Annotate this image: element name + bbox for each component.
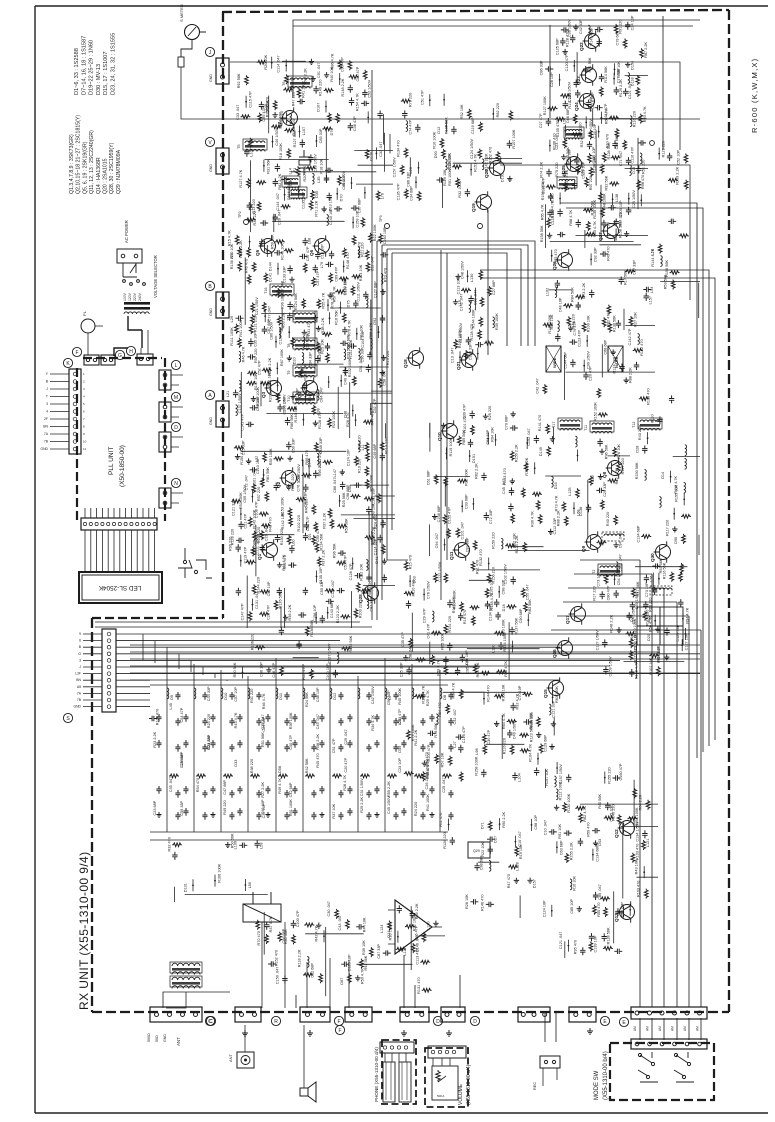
svg-text:Q6: Q6: [309, 249, 314, 256]
svg-text:R68 4.7K: R68 4.7K: [569, 210, 573, 226]
circled E2: [619, 1017, 628, 1026]
svg-text:AM: AM: [671, 1026, 675, 1031]
svg-text:AM: AM: [683, 1026, 687, 1031]
AC POWER block: [117, 249, 142, 263]
relay RL1: [243, 904, 281, 922]
svg-text:C100 10P: C100 10P: [326, 663, 330, 680]
svg-text:R10 100K: R10 100K: [432, 131, 436, 148]
svg-text:C20 47P: C20 47P: [589, 366, 593, 381]
svg-text:C110 47P: C110 47P: [631, 147, 635, 164]
svg-text:C40 1/50V: C40 1/50V: [344, 366, 348, 384]
svg-text:C121 33P: C121 33P: [552, 700, 556, 717]
svg-text:R155 10K: R155 10K: [675, 484, 679, 501]
svg-text:R62 4.7K: R62 4.7K: [583, 805, 587, 821]
switch S1-2: [674, 1052, 694, 1082]
svg-text:R123 2.2K: R123 2.2K: [515, 535, 519, 553]
svg-text:L77: L77: [255, 456, 259, 462]
svg-text:C143 47P: C143 47P: [240, 413, 244, 430]
svg-text:Q8: Q8: [602, 471, 607, 478]
svg-text:C29 .047: C29 .047: [344, 729, 348, 744]
regulator area subcircuit: resistors, capacitors and wiring: [439, 811, 538, 918]
transistor Q1: [263, 543, 278, 558]
svg-text:R46 220: R46 220: [304, 499, 308, 513]
svg-text:L76: L76: [381, 193, 385, 199]
svg-text:R82 470: R82 470: [607, 313, 611, 327]
svg-text:C80 47P: C80 47P: [356, 66, 360, 81]
svg-text:C85 .047: C85 .047: [598, 884, 602, 899]
svg-text:R29 4.7K: R29 4.7K: [426, 690, 430, 706]
svg-text:R110 470: R110 470: [411, 580, 415, 596]
svg-text:C50 33P: C50 33P: [291, 438, 295, 453]
svg-text:D9: D9: [169, 694, 174, 700]
svg-text:R31 56K: R31 56K: [266, 158, 270, 173]
svg-text:C34 68P: C34 68P: [410, 186, 414, 201]
svg-text:BN: BN: [76, 678, 81, 682]
svg-text:R131 470: R131 470: [417, 977, 421, 993]
svg-text:PLL UNIT: PLL UNIT: [108, 447, 115, 475]
svg-text:C157 1/50V: C157 1/50V: [393, 157, 397, 178]
svg-text:C134 68P: C134 68P: [637, 525, 641, 542]
svg-text:R43 10K: R43 10K: [635, 859, 639, 874]
transformer T9: [295, 367, 315, 369]
svg-text:120V: 120V: [128, 292, 132, 301]
svg-text:R28 4.7K: R28 4.7K: [343, 775, 347, 791]
svg-text:D11: D11: [278, 692, 283, 700]
svg-text:C38 10P: C38 10P: [316, 687, 320, 702]
svg-text:R73 4.7K: R73 4.7K: [554, 495, 558, 511]
svg-text:C46 47P: C46 47P: [272, 662, 276, 677]
svg-text:C49 68P: C49 68P: [373, 443, 377, 458]
wire right loop 1: [560, 203, 697, 758]
svg-text:C158 10P: C158 10P: [313, 604, 317, 621]
svg-text:R94 10K: R94 10K: [491, 427, 495, 442]
connector J at x441: [441, 1007, 465, 1022]
svg-text:R82 2.2K: R82 2.2K: [278, 173, 282, 189]
svg-text:L80: L80: [250, 204, 254, 210]
svg-text:C63 33P: C63 33P: [486, 429, 490, 444]
svg-text:C45 1/50V: C45 1/50V: [387, 796, 391, 814]
wire AC to J3: [141, 330, 148, 354]
svg-text:Q15: Q15: [543, 689, 548, 698]
svg-text:D27: D27: [494, 836, 498, 843]
svg-text:C26 .047: C26 .047: [278, 210, 282, 225]
svg-text:GND: GND: [209, 308, 213, 316]
svg-text:C147 47P: C147 47P: [240, 603, 244, 620]
svg-text:2F: 2F: [44, 417, 48, 421]
svg-text:Q25: Q25: [561, 165, 566, 174]
svg-text:D30 : MV-13: D30 : MV-13: [96, 64, 102, 95]
svg-text:C121 .047: C121 .047: [628, 82, 632, 100]
svg-text:R149 4.7K: R149 4.7K: [634, 661, 638, 679]
svg-text:Q2,10,15~18 21~27 : 2SC1815(Y): Q2,10,15~18 21~27 : 2SC1815(Y): [76, 115, 82, 194]
svg-text:C99 47P: C99 47P: [340, 57, 344, 72]
svg-text:R158 10K: R158 10K: [501, 684, 505, 701]
svg-text:C33 68P: C33 68P: [465, 494, 469, 509]
svg-text:R92 56K: R92 56K: [364, 955, 368, 970]
wire loop 1: [377, 241, 535, 620]
svg-text:R123 2.2K: R123 2.2K: [336, 605, 340, 623]
svg-text:C52 1/50V: C52 1/50V: [367, 79, 371, 97]
transistor Q19: [477, 195, 492, 210]
svg-text:L21: L21: [226, 391, 230, 397]
svg-text:R16 470: R16 470: [463, 610, 467, 624]
svg-text:C23 10P: C23 10P: [398, 758, 402, 773]
svg-text:R130 56K: R130 56K: [612, 315, 616, 332]
svg-text:R159 220: R159 220: [492, 532, 496, 548]
svg-text:C121 .047: C121 .047: [559, 932, 563, 950]
svg-text:C123 10P: C123 10P: [348, 954, 352, 971]
svg-text:220V: 220V: [133, 292, 137, 301]
svg-text:7B: 7B: [44, 440, 49, 444]
svg-text:L111: L111: [403, 948, 407, 956]
svg-text:C28 10P: C28 10P: [550, 72, 554, 87]
svg-text:3: 3: [46, 402, 48, 406]
svg-text:Q29 : NJM78M09A: Q29 : NJM78M09A: [116, 149, 122, 194]
svg-text:Q28, 30 : 2SC1959(Y): Q28, 30 : 2SC1959(Y): [109, 142, 115, 194]
svg-text:11: 11: [83, 447, 86, 451]
svg-text:R83 4.7K: R83 4.7K: [593, 221, 597, 237]
wire loop 3: [387, 249, 521, 560]
svg-text:C101 .047: C101 .047: [460, 522, 464, 540]
svg-text:R95 470: R95 470: [573, 940, 577, 954]
wire bus y165: [500, 165, 690, 300]
svg-text:R145 10K: R145 10K: [452, 596, 456, 613]
svg-text:R150 470: R150 470: [358, 242, 362, 258]
svg-text:C85 10P: C85 10P: [570, 899, 574, 914]
svg-text:C31 1/50V: C31 1/50V: [360, 778, 364, 796]
wire bus y119: [190, 118, 700, 120]
svg-text:R91 100K: R91 100K: [448, 169, 452, 186]
right mid components subcircuit: resistors, capacitors and wiring: [635, 388, 700, 555]
svg-text:R114 56K: R114 56K: [604, 66, 608, 83]
svg-text:D8: D8: [442, 694, 447, 700]
svg-text:C59 10P: C59 10P: [387, 690, 391, 705]
transistor Q5: [261, 239, 276, 254]
svg-text:R158 100K: R158 100K: [474, 756, 478, 775]
bank left column subcircuit: resistors, capacitors and wiring: [149, 709, 160, 725]
filter F3 NARROW: [608, 346, 623, 372]
svg-text:C93 .047: C93 .047: [474, 290, 478, 305]
regulator Q29: [468, 842, 490, 858]
svg-text:Q3: Q3: [261, 391, 266, 398]
svg-text:R47 470: R47 470: [507, 874, 511, 888]
svg-text:C143 68P: C143 68P: [330, 601, 334, 618]
TP2: [244, 220, 249, 225]
wire vertical x441: [440, 250, 442, 600]
IF filter bank D7-D12: [150, 658, 457, 840]
svg-text:Q9: Q9: [581, 545, 586, 552]
svg-text:R114 10K: R114 10K: [359, 264, 363, 281]
svg-text:R45 470: R45 470: [316, 753, 320, 767]
svg-text:C94 .047: C94 .047: [435, 533, 439, 548]
svg-text:R49 470: R49 470: [607, 247, 611, 261]
transistor Q17: [571, 607, 586, 622]
svg-text:C73 10P: C73 10P: [645, 582, 649, 597]
svg-text:C150 .047: C150 .047: [275, 967, 279, 985]
svg-text:O: O: [78, 652, 81, 656]
svg-text:C52 10P: C52 10P: [267, 581, 271, 596]
svg-text:C101 .047: C101 .047: [253, 469, 257, 487]
svg-text:R26 4.7K: R26 4.7K: [504, 661, 508, 677]
svg-text:50KA: 50KA: [437, 1094, 444, 1098]
transformer T5: [245, 141, 265, 143]
svg-text:D144: D144: [308, 458, 312, 467]
svg-text:C69 47P: C69 47P: [334, 266, 338, 281]
svg-text:Q17: Q17: [565, 615, 570, 624]
PHONE jack internals: [380, 1042, 414, 1053]
svg-text:R154 4.7K: R154 4.7K: [356, 93, 360, 111]
svg-text:R155 220: R155 220: [607, 767, 611, 783]
svg-text:R150 56K: R150 56K: [635, 462, 639, 479]
svg-text:R46 470: R46 470: [245, 259, 249, 273]
transistor Q16: [558, 641, 573, 656]
svg-text:C57 10P: C57 10P: [234, 687, 238, 702]
svg-text:GND: GND: [209, 164, 213, 172]
svg-text:R102 220: R102 220: [297, 515, 301, 531]
svg-text:R47 220: R47 220: [292, 92, 296, 106]
transistor Q30: [656, 545, 671, 560]
svg-text:Q29: Q29: [473, 849, 480, 853]
svg-text:C127 10P: C127 10P: [685, 633, 689, 650]
svg-text:R123 56K: R123 56K: [529, 725, 533, 742]
coil T osc: [604, 534, 624, 536]
svg-text:R43 4.7K: R43 4.7K: [234, 712, 238, 728]
svg-text:R104 4.7K: R104 4.7K: [529, 743, 533, 761]
svg-text:C144 .047: C144 .047: [276, 193, 280, 211]
svg-text:LED SL-2504K: LED SL-2504K: [98, 584, 141, 591]
svg-text:C34 33P: C34 33P: [207, 686, 211, 701]
svg-text:R67 2.2K: R67 2.2K: [644, 42, 648, 58]
svg-text:R40 10K: R40 10K: [330, 66, 334, 81]
svg-text:R156 100K: R156 100K: [541, 181, 545, 200]
svg-text:R127 100K: R127 100K: [543, 96, 547, 115]
svg-text:PL: PL: [82, 310, 87, 316]
connector T14 on divider: [216, 58, 229, 84]
svg-text:L76: L76: [649, 576, 653, 582]
svg-text:R42 56K: R42 56K: [305, 758, 309, 773]
svg-text:D59: D59: [398, 746, 402, 753]
svg-text:R22 10K: R22 10K: [481, 841, 485, 856]
svg-text:C139 10P: C139 10P: [593, 935, 597, 952]
svg-text:R65 4.7K: R65 4.7K: [541, 204, 545, 220]
svg-text:L50: L50: [248, 882, 252, 888]
svg-text:R63 2.2K: R63 2.2K: [282, 312, 286, 328]
svg-text:GND: GND: [40, 447, 48, 451]
transistor Q9: [587, 535, 602, 550]
svg-text:M: M: [174, 395, 178, 401]
switch S1-1: [638, 1052, 658, 1082]
transformer T18: [559, 179, 575, 181]
svg-text:R112 2.2K: R112 2.2K: [318, 449, 322, 467]
svg-text:R50 56K: R50 56K: [233, 662, 237, 677]
svg-text:R15 4.7K: R15 4.7K: [228, 230, 232, 246]
wire bus fan: [116, 634, 700, 707]
svg-text:C63 68P: C63 68P: [559, 840, 563, 855]
circled R: [271, 1016, 280, 1025]
svg-text:R130 100K: R130 100K: [567, 793, 571, 812]
svg-text:C51 47P: C51 47P: [244, 513, 248, 528]
svg-text:C29 47P: C29 47P: [423, 608, 427, 623]
svg-text:R92 56K: R92 56K: [605, 175, 609, 190]
svg-text:C123 47P: C123 47P: [578, 329, 582, 346]
svg-text:C19 10P: C19 10P: [593, 123, 597, 138]
svg-text:R82 2.2K: R82 2.2K: [475, 463, 479, 479]
svg-text:R144 100K: R144 100K: [503, 632, 507, 651]
svg-text:Q11, 12, 13 : 2SC2240(GR): Q11, 12, 13 : 2SC2240(GR): [89, 130, 95, 194]
svg-text:50Ω: 50Ω: [155, 1035, 159, 1042]
svg-text:C124 10P: C124 10P: [542, 900, 546, 917]
svg-text:R71 2.2K: R71 2.2K: [315, 200, 319, 216]
svg-text:C51 .047: C51 .047: [359, 357, 363, 372]
svg-text:R158 56K: R158 56K: [540, 225, 544, 242]
ANT jack: [237, 1052, 254, 1068]
svg-text:C35 10P: C35 10P: [253, 332, 257, 347]
VOLUME pot internals: [428, 1046, 466, 1058]
svg-text:C80 47P: C80 47P: [607, 585, 611, 600]
svg-text:R73 2.2K: R73 2.2K: [582, 282, 586, 298]
svg-text:R130 220: R130 220: [280, 529, 284, 545]
svg-text:T16: T16: [264, 287, 268, 294]
svg-text:C155 47P: C155 47P: [447, 507, 451, 524]
svg-text:R132 470: R132 470: [479, 549, 483, 565]
svg-text:R102 470: R102 470: [640, 339, 644, 355]
svg-text:R128 56K: R128 56K: [607, 927, 611, 944]
svg-text:10: 10: [83, 440, 87, 444]
svg-text:R51 100K: R51 100K: [289, 799, 293, 816]
svg-text:AM: AM: [633, 1026, 637, 1031]
svg-text:L59: L59: [260, 842, 264, 848]
svg-text:R83 56K: R83 56K: [528, 599, 532, 614]
svg-text:C88 10P: C88 10P: [342, 175, 346, 190]
svg-text:C99 33P: C99 33P: [448, 154, 452, 169]
svg-text:L128: L128: [516, 862, 520, 870]
svg-text:C79 47P: C79 47P: [573, 320, 577, 335]
meter wire: [181, 67, 190, 119]
svg-text:R115 2.2K: R115 2.2K: [239, 240, 243, 258]
svg-text:C119 10P: C119 10P: [343, 278, 347, 295]
VOLUME dashed boundary: [425, 1048, 468, 1107]
svg-text:L109: L109: [234, 841, 238, 849]
svg-text:R51 220: R51 220: [641, 160, 645, 174]
svg-text:R37 10K: R37 10K: [332, 803, 336, 818]
svg-text:WIDE: WIDE: [552, 357, 557, 368]
svg-text:C21 1/50V: C21 1/50V: [589, 119, 593, 137]
svg-text:R32 470: R32 470: [168, 837, 172, 851]
svg-text:R156 56K: R156 56K: [665, 260, 669, 277]
transformer T8b: [291, 190, 305, 191]
svg-text:C52 10P: C52 10P: [676, 150, 680, 165]
svg-text:Q28: Q28: [358, 594, 363, 603]
wire loop 2: [382, 245, 528, 600]
svg-text:R141 470: R141 470: [538, 415, 542, 431]
connector J at x518: [518, 1007, 550, 1022]
transformer T17b: [566, 129, 582, 131]
voltage selector switch: [123, 263, 137, 277]
svg-text:R23 100K: R23 100K: [332, 411, 336, 428]
MODE SW connector strip: [631, 1039, 707, 1049]
svg-text:R63 10K: R63 10K: [476, 662, 480, 677]
svg-text:C119 47P: C119 47P: [243, 546, 247, 563]
svg-text:AC POWER: AC POWER: [124, 220, 129, 243]
svg-text:R76 10K: R76 10K: [617, 444, 621, 459]
svg-text:L45: L45: [169, 703, 173, 709]
svg-text:Q1: Q1: [257, 553, 262, 560]
svg-text:D: D: [174, 425, 178, 431]
svg-text:Q23: Q23: [576, 76, 581, 85]
svg-text:L107: L107: [302, 127, 306, 135]
svg-text:C25 1/50V: C25 1/50V: [632, 190, 636, 208]
svg-text:RX UNIT (X55-1310-00 9/4): RX UNIT (X55-1310-00 9/4): [77, 851, 91, 1010]
svg-text:T8: T8: [287, 344, 291, 348]
svg-text:R62 4.7K: R62 4.7K: [604, 108, 608, 124]
svg-text:R46 4.7K: R46 4.7K: [262, 693, 266, 709]
svg-text:C125 47P: C125 47P: [462, 726, 466, 743]
svg-text:R76 4.7K: R76 4.7K: [347, 320, 351, 336]
svg-text:C128 .047: C128 .047: [331, 580, 335, 598]
wires to REC: [545, 1012, 556, 1042]
svg-text:C10 .047: C10 .047: [543, 820, 547, 835]
svg-text:R146 470: R146 470: [480, 895, 484, 911]
power transformer primary: [124, 302, 150, 305]
svg-text:C42 .047: C42 .047: [453, 709, 457, 724]
svg-text:D70: D70: [330, 128, 334, 135]
svg-text:Q2: Q2: [276, 481, 281, 488]
svg-text:C23 .047: C23 .047: [555, 134, 559, 149]
crystal PL: [81, 319, 95, 333]
svg-text:C24 68P: C24 68P: [207, 734, 211, 749]
svg-text:C126 47P: C126 47P: [397, 183, 401, 200]
svg-text:D1~6, 33 : 1S2588: D1~6, 33 : 1S2588: [74, 48, 80, 95]
wire drops to filter bank: [143, 634, 227, 681]
transformer T11: [592, 423, 612, 425]
svg-text:L54: L54: [650, 287, 654, 293]
svg-text:Q11: Q11: [449, 551, 454, 560]
svg-text:C131 .047: C131 .047: [255, 591, 259, 609]
svg-text:C120 47P: C120 47P: [565, 54, 569, 71]
svg-text:R146 56K: R146 56K: [294, 405, 298, 422]
svg-text:VOLTAGE SELECTOR: VOLTAGE SELECTOR: [153, 255, 158, 298]
svg-text:D23, 24, 31, 32 : 1S1555: D23, 24, 31, 32 : 1S1555: [111, 33, 117, 95]
svg-text:C159 10P: C159 10P: [356, 210, 360, 227]
svg-text:R78 56K: R78 56K: [434, 722, 438, 737]
svg-text:C43 .047: C43 .047: [338, 915, 342, 930]
svg-text:R130 10K: R130 10K: [593, 156, 597, 173]
svg-text:R127 56K: R127 56K: [293, 130, 297, 147]
svg-text:C54 1/50V: C54 1/50V: [617, 567, 621, 585]
svg-text:R39 100K: R39 100K: [495, 313, 499, 330]
connector 6pin: [631, 1007, 707, 1019]
svg-text:R93 4.7K: R93 4.7K: [643, 106, 647, 122]
svg-text:Q1,3,4,7,8,9 : 3SK73(GR): Q1,3,4,7,8,9 : 3SK73(GR): [69, 134, 75, 194]
svg-text:D138: D138: [579, 507, 583, 516]
PHONE dashed boundary: [382, 1040, 416, 1104]
connector J2: [101, 355, 115, 365]
svg-text:D15, 17 : 1S1007: D15, 17 : 1S1007: [103, 51, 109, 95]
RX unit dashed boundary left lower: [91, 618, 93, 1012]
svg-text:R39 220: R39 220: [253, 211, 257, 225]
svg-text:C100 47P: C100 47P: [296, 910, 300, 927]
svg-text:R88 2.2K: R88 2.2K: [557, 510, 561, 526]
svg-text:C37 10P: C37 10P: [262, 803, 266, 818]
svg-text:T17: T17: [552, 421, 556, 428]
transistor Q15: [549, 681, 564, 696]
speaker SP: [300, 1082, 316, 1102]
svg-text:C94 .047: C94 .047: [619, 533, 623, 548]
TP3: [385, 224, 390, 229]
svg-text:D144: D144: [269, 262, 273, 271]
svg-text:R53 56K: R53 56K: [664, 274, 668, 289]
svg-text:L157: L157: [649, 296, 653, 304]
